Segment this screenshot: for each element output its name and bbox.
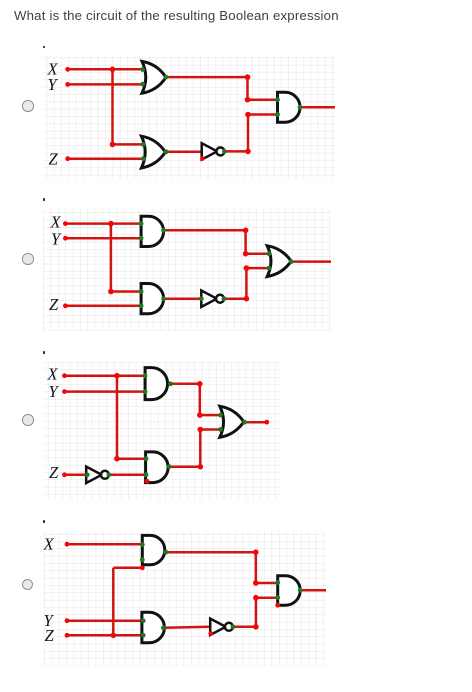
wire X tap vertical [111,70,114,145]
AND2 output pin [167,464,172,469]
stray node at NOT1 [200,156,205,161]
option 3 list marker dot [43,351,45,354]
corner junction [245,75,251,81]
wire to AND1 input 2 [248,114,278,117]
svg-text:X: X [43,535,55,554]
terminal Z [65,633,70,638]
radio button option 1 [22,100,34,112]
wire AND2 output to NOT1 [163,627,210,628]
AND gate U2 [146,452,169,483]
question title [14,8,339,23]
wire AND2 output vertical [199,429,202,466]
corner junction [253,580,259,586]
wire AND1 output horizontal [164,229,246,232]
AND gate U1 (X AND Y) [145,367,167,399]
wire NOT1 output vertical [245,268,248,299]
corner junction [253,550,259,556]
terminal Z [65,157,70,162]
option 1 list marker dot [43,46,45,49]
wire to OR1 input 2 [200,428,220,431]
NOT1 input pin [199,297,204,302]
OR1 pin 2 [140,82,145,87]
AND2 pin 1 [141,619,146,624]
wire AND1 output horizontal [166,551,256,554]
terminal Y [62,389,67,394]
svg-text:Z: Z [45,626,55,645]
wire Z to NOT1 [65,473,87,476]
wire AND2 output to NOT1 [164,298,202,301]
AND2 pin 2 [141,633,146,638]
wire Y to OR1 input 2 [68,83,143,86]
terminal X [63,222,68,227]
svg-text:X: X [47,364,59,383]
OR gate U2 (tap OR Z) [141,136,165,168]
OR1 pin 2 [267,266,272,271]
corner junction [243,228,249,234]
corner junction [198,464,204,470]
wire OR1 output [291,261,331,264]
junction on Z wire [111,633,117,639]
stray node at NOT1 [208,631,213,636]
AND gate U2 (Y AND Z) [142,612,165,643]
junction on X wire [114,373,120,379]
OR1 pin 1 [218,413,223,418]
wire OR2 output to NOT1 [166,151,202,154]
OR1 output pin [289,260,294,265]
NOT1 input pin [85,472,90,477]
wire AND1 output vertical [199,384,202,415]
corner junction [253,624,259,630]
NOT1 output pin [222,297,227,302]
option 2 list marker dot [43,198,45,201]
wire X to AND1 input 1 [65,374,146,377]
wire NOT1 output horizontal [224,150,248,153]
AND gate U1 (X AND tap) [142,536,165,565]
terminal X [62,373,67,378]
wire X to OR1 input 1 [68,68,143,71]
AND1 output pin [168,381,173,386]
wire X to AND1 input 1 [65,223,141,226]
OR gate U4 (output) [267,246,291,277]
NOT1 output pin [231,625,236,630]
OR2 output pin [164,150,169,155]
radio button option 4 [22,579,34,591]
AND1 pin 1 [139,222,144,227]
svg-text:Z: Z [49,296,59,315]
wire Z tap vertical [112,568,115,636]
NOT gate U3 [201,291,217,307]
svg-text:Z: Z [49,150,59,169]
AND1 pin 2 [139,236,144,241]
wire Z to AND2 input 2 [65,305,141,308]
AND1 pin 2 [140,558,145,563]
wire OR1 output horizontal [166,76,248,79]
wire NOT1 output vertical [255,598,258,627]
AND1 pin 2 [275,112,280,117]
wire X tap to AND2 input 1 [117,457,146,460]
terminal Y [65,82,70,87]
NOT gate U3 [202,143,218,159]
OR gate U4 (output) [220,406,244,437]
NOT1 output pin [222,149,227,154]
AND2 pin 2 [139,304,144,309]
AND2 pin 1 [139,289,144,294]
AND1 pin 1 [140,542,145,547]
corner junction [114,456,120,462]
junction on X wire [108,221,114,227]
AND gate U4 (output) [278,93,301,123]
corner junction [198,427,204,433]
corner junction [197,381,203,387]
svg-text:Z: Z [49,463,59,482]
terminal X [65,67,70,72]
wire to OR1 input 1 [200,414,221,417]
NOT gate U3 on Z [86,466,102,482]
OR1 output pin [164,75,169,80]
corner junction [245,97,251,103]
AND1 pin 1 [143,373,148,378]
wire NOT1 output horizontal [224,298,246,301]
AND2 pin 2 [144,472,149,477]
AND2 output pin [161,297,166,302]
option 4 list marker dot [43,520,45,523]
OR2 pin 2 [141,156,146,161]
wire to AND1 input 1 [248,99,278,102]
wire X to AND1 input 1 [67,543,142,546]
AND1 pin 1 [275,98,280,103]
OR2 pin 1 [141,142,146,147]
AND3 pin 2 [275,595,280,600]
corner junction [110,142,116,148]
OR1 output pin [242,420,247,425]
wire Y to AND2 input 1 [67,620,143,623]
junction on X wire [110,67,116,73]
terminal Z [63,304,68,309]
AND1 pin 2 [143,389,148,394]
AND1 output pin [161,228,166,233]
wire AND1 output horizontal [171,382,200,385]
wire AND3 output [300,589,326,592]
AND1 output pin [164,550,169,555]
wire Z to AND2 input 2 [67,634,143,637]
OR gate U1 (X OR Y) [142,62,166,94]
wire AND1 output [300,106,335,109]
corner junction [244,296,250,302]
wire OR1 output [245,421,267,424]
AND3 output pin [298,588,303,593]
corner junction [245,112,251,118]
wire NOT1 output to AND2 input 2 [109,473,146,476]
terminal Y [65,619,70,624]
wire NOT1 output horizontal [233,626,256,629]
wire X tap to AND2 input 1 [111,291,141,294]
wire Y to AND1 input 2 [65,237,141,240]
radio button option 3 [22,414,34,426]
wire OR1 output vertical [246,77,249,100]
wire X tap to OR2 input 1 [113,143,144,146]
terminal Z [62,472,67,477]
stray node at AND1 [140,566,145,571]
corner junction [245,149,251,155]
wire to AND3 input 1 [256,582,278,585]
wire X tap vertical [110,224,113,292]
option 2 circuit: (X AND Y) OR NOT(X AND Z) [43,209,331,331]
wire X tap vertical [116,376,119,459]
corner junction [244,266,250,272]
wire NOT1 output vertical [247,115,250,152]
AND gate U2 (tap AND Z) [141,284,164,314]
wire AND2 output horizontal [169,465,200,468]
wire to OR1 input 1 [246,253,269,256]
wire to AND3 input 2 [256,597,278,600]
output terminal [264,420,269,425]
OR1 pin 1 [267,252,272,257]
wire AND1 output vertical [244,231,247,254]
AND1 output pin [298,105,303,110]
option 3 circuit: (X AND Y) OR (X AND NOT Z) [43,362,281,500]
stray node at AND3 [275,603,280,608]
OR1 pin 1 [140,67,145,72]
wire to OR1 input 2 [246,267,269,270]
wire AND1 output vertical [255,552,258,583]
OR1 pin 2 [218,427,223,432]
AND2 output pin [161,626,166,631]
AND gate U4 (output) [278,576,301,606]
wire Z tap to AND1 [113,567,142,570]
stray node at AND2 [145,479,150,484]
option 4 circuit: (X AND Z) AND NOT(Y AND Z) [43,531,326,666]
wire Y to AND1 input 2 [65,390,146,393]
AND2 pin 1 [144,456,149,461]
corner junction [197,412,203,418]
corner junction [243,251,249,257]
NOT gate U3 [210,619,226,635]
wire stub on AND3 edge [276,598,279,606]
NOT1 output pin [107,472,112,477]
corner junction [108,289,114,295]
AND3 pin 1 [275,580,280,585]
terminal Y [63,236,68,241]
AND gate U1 (X AND Y) [141,217,164,247]
wire Z to OR2 input 2 [68,158,144,161]
corner junction [253,595,259,601]
option 1 circuit: (X OR Y) AND NOT(X OR Z) [43,56,335,179]
radio button option 2 [22,253,34,265]
terminal X [65,542,70,547]
